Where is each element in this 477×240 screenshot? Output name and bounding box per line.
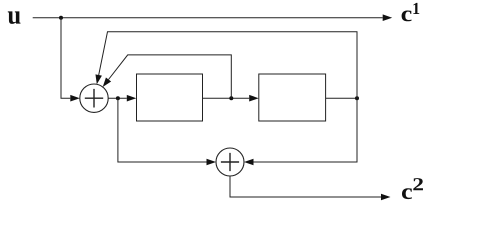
input label u (8, 11, 21, 23)
register D2 (second delay box) (259, 74, 326, 121)
node A: junction after adder U1 (116, 96, 120, 100)
wire: adder U2 output down and right to c2 (230, 176, 381, 197)
arrowhead into register D1 (127, 95, 137, 102)
arrowhead into register D2 (249, 95, 259, 102)
wire: feedback from node B up and left to adder U1 (109, 55, 232, 98)
register D1 (first delay box) (137, 74, 203, 121)
node B: junction after register D1 (229, 96, 233, 100)
wire: register D2 output to node C (326, 97, 357, 99)
node C: junction at register D2 output (355, 96, 359, 100)
wire: feedback from node C up and left to adder U1 (99, 32, 357, 98)
adder U1 (left modulo-2 adder) (80, 84, 108, 112)
arrowhead into adder U2 left (207, 159, 217, 166)
wire: node A down and right to adder U2 (118, 98, 207, 162)
wire: junction down and into adder U1 (61, 18, 70, 99)
arrowhead into c2 (381, 194, 391, 201)
wire: node C down and left to adder U2 (254, 98, 358, 162)
arrowhead feedback B into adder U1 (103, 77, 111, 87)
adder U2 (bottom modulo-2 adder) (216, 148, 244, 176)
wire: u to c1 (systematic output) (33, 17, 383, 19)
output label c1 (402, 10, 412, 21)
output label c2 (402, 188, 412, 199)
wire: adder U1 output to register D1 (108, 97, 127, 99)
arrowhead feedback C into adder U1 (95, 74, 101, 84)
arrowhead into c1 (383, 14, 393, 21)
arrowhead into adder U1 left (70, 95, 80, 102)
arrowhead into adder U2 right (244, 159, 254, 166)
node: input junction on u line (59, 16, 63, 20)
wire: register D1 output to register D2 (203, 97, 250, 99)
